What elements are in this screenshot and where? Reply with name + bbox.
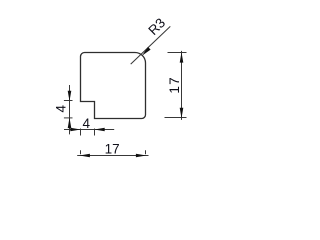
- arrow left: [80, 154, 90, 158]
- arrow down: [180, 108, 184, 118]
- wire: lower extension tick: [64, 117, 73, 119]
- dimension 4 (bottom of notch, horizontal): [64, 129, 114, 136]
- svg-text:4: 4: [54, 104, 69, 112]
- wire: leader line: [131, 26, 171, 64]
- svg-text:R3: R3: [145, 15, 168, 38]
- arrow left (right of span): [94, 128, 104, 132]
- dimension 4 (left, vertical): [64, 85, 73, 134]
- wire: dimension line: [181, 51, 183, 120]
- part outline: 17x17 square, R3 top-right corner, 4x4 notch lower-left: [81, 53, 146, 119]
- wire: upper extension tick: [64, 100, 73, 102]
- wire: left extension tick: [80, 150, 82, 154]
- dimension 17 (bottom, horizontal): [77, 150, 148, 155]
- arrow up: [180, 52, 184, 62]
- wire: bottom extension line: [165, 117, 187, 119]
- dimension 17 (right, vertical): [165, 51, 187, 120]
- wire: dimension line: [69, 85, 71, 134]
- wire: dimension line: [64, 129, 114, 131]
- wire: dimension line: [77, 155, 148, 157]
- wire: top extension line: [168, 52, 187, 54]
- wire: right extension tick: [145, 150, 147, 154]
- arrow to arc: [142, 47, 151, 56]
- svg-text:17: 17: [105, 141, 120, 156]
- arrow up (below span): [68, 118, 72, 128]
- arrow right: [136, 154, 146, 158]
- svg-text:17: 17: [167, 76, 182, 93]
- arrow down (above span): [68, 91, 72, 101]
- svg-text:4: 4: [83, 116, 91, 131]
- wire: left extension tick: [80, 129, 82, 136]
- arrow right (left of span): [70, 128, 80, 132]
- wire: right extension tick: [94, 129, 96, 136]
